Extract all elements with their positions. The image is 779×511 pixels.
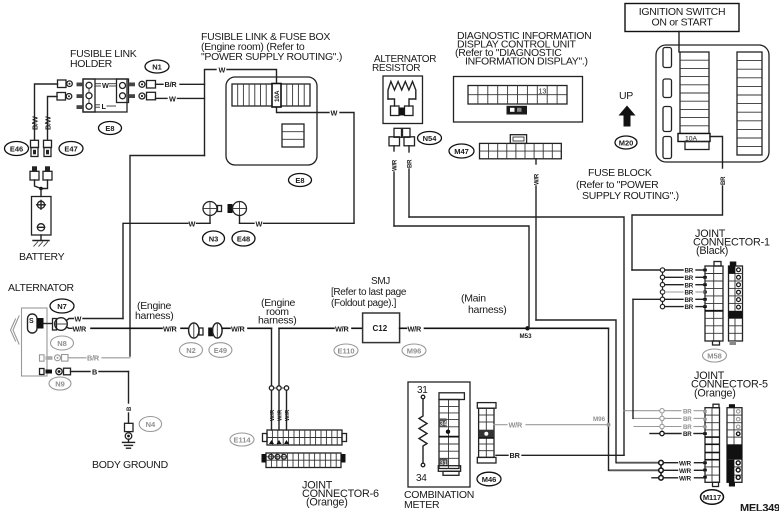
svg-text:BR: BR — [685, 304, 694, 311]
svg-text:W/R: W/R — [285, 409, 291, 421]
svg-text:E48: E48 — [237, 235, 250, 244]
svg-text:W: W — [169, 94, 176, 103]
svg-text:[Refer to last page: [Refer to last page — [331, 287, 407, 298]
svg-text:(Black): (Black) — [696, 245, 728, 257]
svg-text:B: B — [92, 367, 97, 376]
svg-text:B/W: B/W — [31, 116, 40, 130]
svg-text:M47: M47 — [454, 147, 469, 156]
svg-text:E8: E8 — [295, 176, 304, 185]
svg-text:HOLDER: HOLDER — [70, 58, 113, 70]
svg-text:W: W — [256, 219, 263, 228]
svg-text:MEL349: MEL349 — [740, 503, 779, 511]
svg-text:(Foldout page).]: (Foldout page).] — [331, 298, 397, 309]
svg-text:BR: BR — [685, 268, 694, 275]
svg-text:SUPPLY ROUTING".): SUPPLY ROUTING".) — [582, 190, 679, 202]
svg-text:W/R: W/R — [270, 409, 276, 421]
svg-text:W/R: W/R — [535, 173, 541, 185]
svg-text:W/R: W/R — [231, 324, 246, 333]
svg-text:M96: M96 — [593, 416, 606, 423]
svg-text:N2: N2 — [186, 346, 196, 355]
svg-text:N3: N3 — [209, 235, 219, 244]
svg-text:W: W — [331, 109, 338, 118]
svg-text:M96: M96 — [407, 347, 422, 356]
svg-text:ALTERNATOR: ALTERNATOR — [8, 282, 75, 294]
svg-text:RESISTOR: RESISTOR — [372, 63, 420, 74]
svg-text:BR: BR — [683, 431, 692, 438]
svg-text:M58: M58 — [707, 352, 722, 361]
svg-text:W/R: W/R — [335, 324, 350, 333]
svg-text:(Orange): (Orange) — [694, 388, 736, 400]
svg-text:N8: N8 — [57, 339, 67, 348]
svg-text:M20: M20 — [619, 139, 634, 148]
svg-text:31: 31 — [417, 385, 428, 396]
svg-text:W/R: W/R — [393, 159, 399, 171]
svg-text:BR: BR — [408, 159, 414, 168]
svg-text:B/W: B/W — [44, 116, 53, 130]
svg-text:BR: BR — [683, 416, 692, 423]
svg-text:E110: E110 — [337, 347, 354, 356]
svg-text:N54: N54 — [423, 134, 438, 143]
svg-text:34: 34 — [440, 420, 448, 427]
svg-text:W: W — [75, 315, 82, 324]
svg-text:BODY GROUND: BODY GROUND — [92, 459, 169, 471]
svg-text:N4: N4 — [146, 420, 156, 429]
svg-text:BR: BR — [685, 297, 694, 304]
svg-text:E49: E49 — [214, 346, 227, 355]
svg-text:W/R: W/R — [408, 324, 423, 333]
svg-text:W/R: W/R — [509, 421, 524, 430]
svg-text:W: W — [219, 66, 226, 75]
svg-text:(Orange): (Orange) — [306, 497, 348, 509]
svg-text:BR: BR — [683, 408, 692, 415]
svg-text:M46: M46 — [482, 475, 497, 484]
svg-text:W: W — [102, 81, 109, 90]
svg-text:BR: BR — [685, 275, 694, 282]
svg-text:W/R: W/R — [278, 409, 284, 421]
svg-text:E46: E46 — [10, 145, 23, 154]
svg-text:N9: N9 — [55, 380, 65, 389]
svg-text:harness): harness) — [135, 310, 173, 322]
svg-text:BR: BR — [685, 282, 694, 289]
svg-text:B/R: B/R — [165, 80, 178, 89]
svg-text:(Main: (Main — [461, 293, 486, 305]
svg-text:FUSE BLOCK: FUSE BLOCK — [588, 167, 652, 179]
svg-text:W/R: W/R — [679, 468, 692, 475]
svg-text:34: 34 — [416, 473, 427, 484]
svg-text:E8: E8 — [105, 124, 114, 133]
svg-text:M117: M117 — [703, 493, 721, 502]
svg-text:W: W — [189, 219, 196, 228]
svg-text:harness): harness) — [468, 304, 506, 316]
svg-text:W/R: W/R — [73, 324, 88, 333]
svg-text:BATTERY: BATTERY — [19, 251, 65, 263]
svg-text:W/R: W/R — [679, 476, 692, 483]
svg-text:W/R: W/R — [163, 324, 178, 333]
svg-text:BR: BR — [721, 176, 727, 185]
svg-text:10A: 10A — [274, 90, 281, 102]
svg-text:M53: M53 — [520, 333, 533, 340]
svg-text:W/R: W/R — [679, 461, 692, 468]
svg-text:BR: BR — [510, 451, 521, 460]
svg-text:SMJ: SMJ — [371, 276, 390, 287]
svg-text:E114: E114 — [233, 436, 251, 445]
svg-text:INFORMATION DISPLAY".): INFORMATION DISPLAY".) — [465, 56, 588, 68]
svg-text:ON or START: ON or START — [651, 17, 713, 29]
svg-text:13: 13 — [539, 89, 547, 96]
svg-text:UP: UP — [619, 90, 633, 102]
svg-text:S: S — [29, 318, 34, 325]
svg-text:C12: C12 — [373, 324, 388, 333]
svg-text:E47: E47 — [64, 145, 77, 154]
svg-text:BR: BR — [683, 424, 692, 431]
svg-text:BR: BR — [685, 290, 694, 297]
svg-text:L: L — [102, 102, 107, 111]
svg-text:harness): harness) — [258, 315, 296, 327]
svg-text:N7: N7 — [57, 302, 67, 311]
svg-text:N1: N1 — [152, 63, 162, 72]
svg-text:B/R: B/R — [87, 354, 100, 363]
svg-text:METER: METER — [404, 499, 440, 511]
svg-text:"POWER SUPPLY ROUTING".): "POWER SUPPLY ROUTING".) — [201, 51, 342, 63]
